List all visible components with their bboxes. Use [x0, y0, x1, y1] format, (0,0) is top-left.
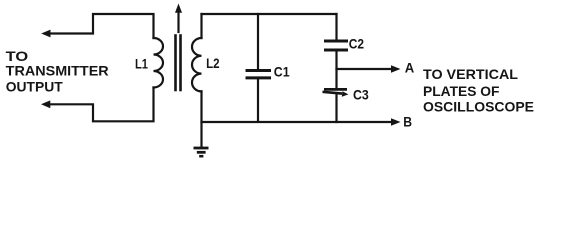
arrowhead: node A: [391, 65, 401, 73]
svg-text:PLATES OF: PLATES OF: [423, 83, 500, 99]
svg-text:C2: C2: [349, 36, 364, 51]
capacitor C3 arrow plate (variable): [323, 92, 343, 94]
svg-text:L1: L1: [135, 56, 148, 71]
wire: C1 bottom lead: [257, 79, 259, 122]
wire: C3 bottom lead: [335, 95, 337, 122]
inductor L2: [192, 38, 201, 91]
wire: node A lead: [337, 68, 393, 70]
svg-text:L2: L2: [206, 56, 220, 71]
arrowhead: tuning arrow tip: [175, 4, 182, 13]
svg-text:TO VERTICAL: TO VERTICAL: [423, 66, 518, 82]
svg-text:TRANSMITTER: TRANSMITTER: [6, 63, 109, 79]
svg-text:OUTPUT: OUTPUT: [6, 78, 63, 94]
capacitor C2 plates: [324, 40, 348, 43]
svg-text:OSCILLOSCOPE: OSCILLOSCOPE: [423, 98, 534, 114]
wire: bottom rail to B: [202, 121, 393, 123]
tuning arrow shaft: [177, 12, 179, 33]
transformer core left line: [174, 36, 177, 91]
text: TO TRANSMITTER OUTPUT: [6, 48, 109, 94]
svg-text:A: A: [405, 61, 415, 76]
capacitor C1 plates: [246, 69, 272, 72]
arrowhead: to transmitter (top): [41, 30, 50, 38]
arrowhead: to transmitter (bottom): [41, 100, 50, 108]
inductor L2 bottom lead to ground: [200, 91, 202, 146]
text: TO VERTICAL PLATES OF OSCILLOSCOPE: [423, 66, 534, 114]
svg-text:C1: C1: [274, 64, 290, 79]
inductor L2 top lead: [200, 14, 202, 38]
svg-text:C3: C3: [353, 87, 369, 102]
wire: C1 top lead: [257, 14, 259, 69]
arrowhead: node B: [391, 118, 401, 126]
ground: [194, 148, 209, 156]
wire: C2 top lead: [335, 14, 337, 40]
transformer core right line: [179, 36, 182, 91]
arrowhead: C3 variable arrow tip: [342, 91, 349, 97]
wire: secondary top rail: [202, 13, 337, 15]
inductor L1: [154, 38, 164, 88]
svg-text:B: B: [403, 114, 412, 129]
wire: primary bottom lead with step: [49, 88, 154, 122]
capacitor C3 top plate: [324, 88, 347, 91]
svg-text:TO: TO: [6, 48, 29, 64]
wire: C2-C3 middle lead through node A: [335, 52, 337, 89]
wire: primary top lead with step: [49, 14, 154, 38]
